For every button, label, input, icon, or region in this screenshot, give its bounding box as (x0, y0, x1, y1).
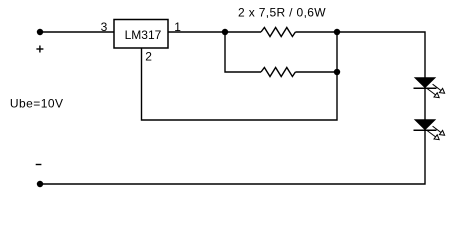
wire from node B to right rail (337, 32, 425, 78)
op-amp U1 LM317 regulator box (114, 20, 168, 49)
resistor R2 (bottom, 7,5R 0,6W) (261, 68, 337, 77)
svg-text:2 x 7,5R / 0,6W: 2 x 7,5R / 0,6W (238, 5, 326, 19)
node - terminal (negative input) (37, 181, 43, 187)
wire from + terminal to LM317 pin 3 (40, 31, 114, 33)
node + terminal (positive input) (37, 29, 43, 35)
LED D2 (414, 120, 445, 140)
wire between node B and node C (336, 32, 338, 72)
wire from LM317 pin 1 to node A (168, 31, 225, 33)
resistor R1 (top, 7,5R 0,6W) (225, 28, 337, 37)
wire left branch down (225, 32, 261, 72)
svg-text:Ube=10V: Ube=10V (10, 97, 64, 111)
svg-text:LM317: LM317 (125, 28, 162, 42)
wire feedback loop from node C to LM317 pin 2 (142, 48, 338, 120)
label - (36, 164, 42, 166)
svg-text:3: 3 (101, 20, 108, 34)
node A (left junction of parallel resistors) (222, 29, 228, 35)
svg-text:2: 2 (145, 49, 152, 63)
wire between LED D1 and LED D2 (424, 88, 426, 120)
LED D1 (414, 78, 445, 98)
label + (36, 48, 43, 50)
node C (bottom right junction) (334, 69, 340, 75)
node B (top right junction) (334, 29, 340, 35)
wire from LED D2 to bottom rail (40, 130, 425, 184)
